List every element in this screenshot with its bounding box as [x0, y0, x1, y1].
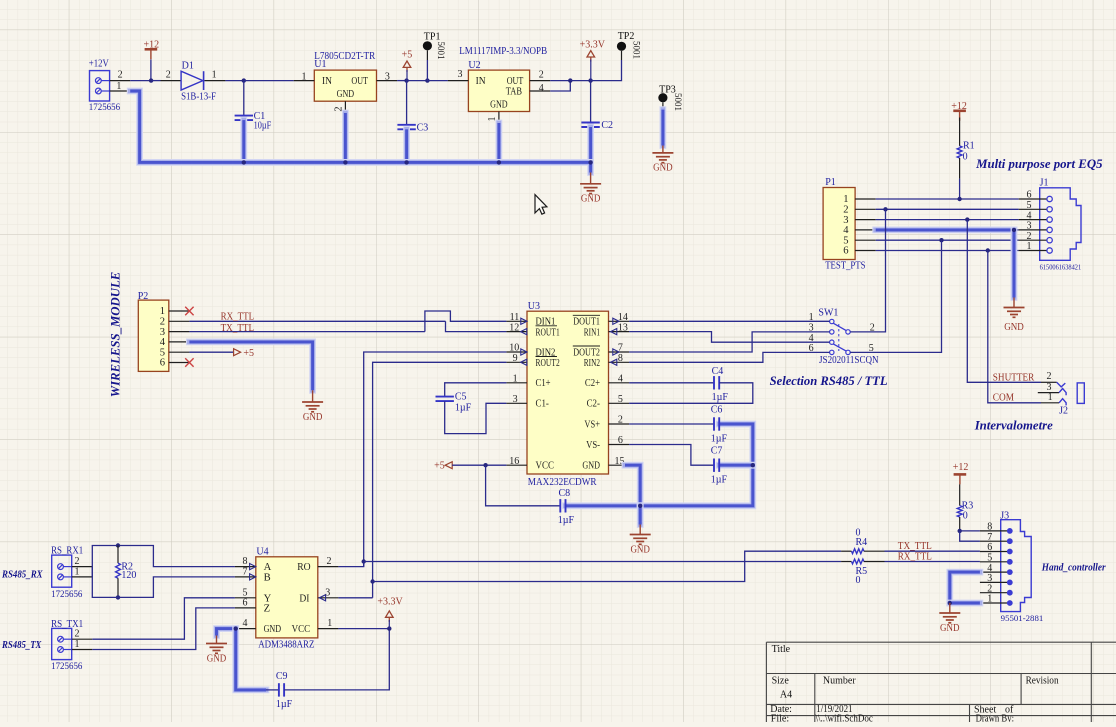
junction GND riser on pin4 row: [1012, 228, 1016, 232]
svg-text:Size: Size: [772, 675, 790, 686]
regulator U2 body: [468, 70, 529, 111]
wire to C9 left: [266, 689, 279, 691]
wire RS_TX1 pin1 to U4 Z: [92, 608, 235, 650]
wire U4 RO riser: [338, 562, 363, 567]
pin 7 of J3: [980, 532, 1013, 544]
pin 1 of J3: [980, 594, 1013, 606]
svg-text:Hand_controller: Hand_controller: [1041, 563, 1106, 574]
wire +12 to R3: [959, 484, 961, 505]
wire U1 GND to bus (selected): [342, 113, 349, 162]
junction U2 GND on gnd bus overdraw: [497, 160, 501, 164]
svg-text:C2+: C2+: [585, 378, 600, 389]
pin 6 of P2: [160, 358, 190, 369]
svg-text:Intervalometre: Intervalometre: [974, 417, 1053, 432]
junction U3 gnd riser: [638, 504, 642, 508]
pin 3 of U2: [448, 69, 469, 81]
svg-text:GND: GND: [1004, 322, 1024, 333]
wire U4 pin4 to gnd (selected): [217, 629, 235, 636]
svg-text:3: 3: [513, 394, 518, 405]
pin 3 of J2: [1038, 382, 1059, 393]
wire GND riser (selected): [1011, 230, 1018, 298]
power symbol +3.3V (top): [580, 40, 606, 62]
capacitor C2: [581, 123, 599, 128]
resistor R5: [841, 559, 884, 564]
junction R5 branch: [362, 559, 366, 563]
svg-text:C7: C7: [711, 446, 723, 457]
svg-text:DOUT2: DOUT2: [573, 347, 600, 358]
junction COM riser on pin6 row: [986, 248, 990, 252]
ground symbol below P1/J1: [1004, 308, 1025, 333]
pin 1 of P1: [843, 194, 875, 205]
svg-text:12: 12: [509, 322, 519, 333]
svg-text:TEST_PTS: TEST_PTS: [825, 261, 865, 272]
wire VS+ to C6: [629, 423, 714, 425]
svg-text:5: 5: [618, 394, 623, 405]
svg-text:C5: C5: [455, 391, 467, 402]
pin 4 of P2: [160, 337, 190, 348]
wire J3 gnd red stem: [949, 603, 951, 613]
svg-text:C2: C2: [601, 120, 613, 131]
svg-text:0: 0: [963, 152, 968, 163]
wire DOUT2 to SW1 pin3: [629, 332, 830, 352]
svg-text:SHUTTER: SHUTTER: [993, 372, 1035, 383]
svg-text:2: 2: [539, 70, 544, 81]
capacitor C8: [560, 499, 565, 512]
svg-text:COM: COM: [993, 393, 1014, 404]
svg-text:6: 6: [160, 358, 165, 369]
capacitor C5: [436, 397, 454, 402]
wire +12V pin2 to node: [130, 80, 151, 82]
pin 2 of J1: [1019, 231, 1053, 243]
wire R2 bottom stub: [117, 578, 119, 597]
wire OUT node to +3.3V node: [570, 80, 590, 82]
svg-text:Number: Number: [823, 675, 856, 686]
power symbol +5 (top): [402, 50, 413, 72]
wire node to TP2 corner: [591, 60, 622, 81]
pin 6 of P1: [843, 246, 875, 257]
pin 4 of J3: [980, 563, 1013, 575]
junction +5/C3 node: [404, 78, 408, 82]
svg-text:U4: U4: [256, 547, 268, 558]
wire P2 gnd red stem: [312, 390, 314, 402]
wire R4 to J3 pin6 (TX_TTL): [885, 550, 980, 552]
pin 2 of P1: [843, 205, 875, 216]
junction C2 on gnd bus overdraw: [588, 160, 592, 164]
svg-text:+3.3V: +3.3V: [580, 40, 606, 51]
pin 1 of P2: [160, 306, 190, 317]
junction +3.3V node: [588, 78, 592, 82]
wire ROUT2 riser to U4 DI: [373, 362, 507, 598]
wire C9 to VCC node: [284, 629, 389, 690]
pin 2 of U2: [530, 70, 551, 81]
IC U3 body: [527, 311, 609, 474]
title block grid: [766, 642, 1116, 722]
svg-text:3: 3: [385, 72, 390, 83]
pin 2 of U4: [318, 556, 339, 567]
svg-text:0: 0: [963, 511, 968, 522]
pin 4 of U4: [235, 618, 256, 629]
wire +12 to R1: [959, 118, 961, 146]
wire RO branch to R5: [364, 561, 841, 563]
power symbol +3.3V (U4): [377, 597, 403, 622]
capacitor C9: [279, 683, 284, 696]
pin 6 of U4: [235, 598, 256, 609]
connector RS_RX1 body: [52, 555, 72, 587]
svg-text:+12V: +12V: [89, 58, 110, 69]
wire U1 OUT to +5 node: [397, 80, 407, 82]
wire P1 pin4 to J1 pin3 (selected): [876, 226, 1014, 233]
wire B-net loop bottom: [92, 567, 235, 598]
capacitor C7: [714, 459, 719, 472]
wire TP1 to node: [426, 60, 428, 81]
svg-text:6: 6: [843, 246, 848, 257]
wire riser down to gnd symbol (selected): [637, 506, 644, 525]
svg-text:1: 1: [327, 618, 332, 629]
svg-text:120: 120: [121, 570, 136, 581]
svg-text:C1+: C1+: [536, 378, 551, 389]
wire C2+ to C4: [629, 382, 714, 384]
wire crossover hop TX to DIN1: [425, 311, 507, 332]
wire C9 riser (selected): [236, 629, 266, 690]
svg-text:RIN2: RIN2: [584, 358, 600, 369]
svg-text:C9: C9: [276, 671, 288, 682]
pin 5 of U4: [235, 587, 256, 598]
svg-text:S1B-13-F: S1B-13-F: [181, 91, 216, 102]
svg-text:VS-: VS-: [586, 440, 600, 451]
pin 2 of J2: [1041, 371, 1057, 382]
wire RX_TTL from P2 pin2: [189, 320, 445, 322]
svg-text:VS+: VS+: [584, 419, 600, 430]
wire C1+ to C5: [445, 383, 507, 397]
junction U1 GND on gnd bus overdraw: [343, 160, 347, 164]
switch SW1 JS202011SCQN: [830, 319, 851, 354]
wire RIN1 to SW1 pin4: [629, 332, 830, 343]
pin 2 of RS_RX1: [72, 556, 93, 567]
connector P1 TEST_PTS body: [823, 188, 855, 260]
pin 3 of U4: [318, 587, 339, 601]
wire SHUTTER from P1 pin3: [967, 220, 1041, 383]
pin 11 of U3: [506, 312, 527, 324]
wire GND riser red stem: [1013, 298, 1015, 308]
connector J1 body: [1040, 188, 1081, 260]
pin 6 of J1: [1019, 190, 1053, 202]
svg-text:IN: IN: [322, 76, 332, 87]
wire +3.3V to node: [388, 620, 390, 629]
wire DI branch to R4: [373, 551, 841, 581]
test point TP3 5001: [658, 93, 667, 110]
svg-text:1µF: 1µF: [712, 392, 729, 403]
pin 7 of U3: [609, 343, 630, 355]
svg-text:VCC: VCC: [536, 461, 555, 472]
svg-text:+5: +5: [402, 50, 413, 61]
wire +12 power to node: [150, 60, 152, 81]
wire VCC node down to C8: [486, 465, 561, 506]
pin 1 GND of U2: [487, 112, 499, 124]
svg-text:J2: J2: [1059, 406, 1068, 417]
wire node to TP1 node: [407, 80, 428, 82]
svg-text:5001: 5001: [673, 93, 683, 111]
wire U3 gnd red stem: [639, 525, 641, 535]
junction R2 top: [116, 543, 120, 547]
svg-text:U3: U3: [528, 301, 540, 312]
svg-text:MAX232ECDWR: MAX232ECDWR: [528, 477, 597, 488]
svg-text:Title: Title: [772, 644, 791, 655]
svg-text:TX_TTL: TX_TTL: [221, 323, 255, 334]
svg-text:C8: C8: [559, 488, 571, 499]
svg-text:1µF: 1µF: [558, 515, 575, 526]
pin 1 of J1: [1019, 241, 1053, 253]
svg-text:VCC: VCC: [292, 624, 311, 635]
wire U4 DI riser: [338, 597, 372, 599]
pin 1 of U1: [294, 72, 315, 83]
wire C2 top: [590, 81, 592, 123]
pin 3 of U3: [506, 394, 527, 405]
pin 7 of U4: [235, 567, 256, 581]
pin 2 of J3: [980, 583, 1013, 595]
wire D1 cathode to C1 node: [225, 80, 243, 82]
svg-text:6: 6: [618, 435, 623, 446]
svg-text:R3: R3: [962, 500, 974, 511]
no-ERC mark on P2 pin6: [185, 358, 193, 366]
pin 1 of U3: [506, 374, 527, 385]
wire DOUT1 to SW1 pin1: [629, 320, 830, 322]
svg-text:R4: R4: [856, 537, 868, 548]
wire RS_TX1 pin2 to U4 Y: [92, 598, 235, 639]
wire P1 pin3 to J1 pin4: [876, 219, 1019, 221]
junction SW1-5 riser on pin5 row: [939, 238, 943, 242]
pin 4 of J1: [1019, 210, 1053, 222]
svg-text:ADM3488ARZ: ADM3488ARZ: [258, 639, 314, 650]
wire R5 to J3 pin5 (RX_TTL): [885, 561, 980, 563]
svg-text:2: 2: [118, 70, 123, 81]
connector J3 body: [1001, 520, 1031, 612]
pin 5 of P1: [843, 235, 875, 246]
wire P2 pin5 to +5: [189, 351, 233, 353]
svg-text:1µF: 1µF: [455, 403, 472, 414]
wire P1 pin6 to J1 pin1: [876, 250, 1019, 252]
svg-text:P1: P1: [825, 177, 836, 188]
wire bus end red stem: [590, 173, 592, 184]
svg-text:1: 1: [1027, 241, 1032, 252]
svg-text:RIN1: RIN1: [584, 327, 600, 338]
wire +5 to VCC: [452, 464, 506, 466]
wire P2 pin4 to gnd (selected): [189, 342, 312, 390]
wire SW1 pin5 to P1 pin5 row: [850, 240, 941, 352]
svg-text:13: 13: [618, 322, 628, 333]
power symbol +12 (top left): [144, 40, 160, 60]
svg-text:GND: GND: [337, 89, 355, 100]
svg-text:DI: DI: [299, 593, 310, 604]
svg-text:Drawn By:: Drawn By:: [976, 714, 1014, 722]
pin 12 of U3: [506, 322, 527, 334]
wire TX_TTL from P2 pin3: [189, 331, 425, 333]
wire TP1 node to U2 IN: [427, 80, 448, 82]
svg-text:GND: GND: [207, 653, 227, 664]
svg-text:1: 1: [987, 594, 992, 605]
pin 8 of J3: [980, 522, 1013, 534]
wire P1 pin5 to J1 pin2: [876, 239, 1019, 241]
ground symbol below U3: [630, 535, 651, 556]
power symbol +5 (P2): [234, 348, 254, 359]
wire node to J3 pin7: [960, 531, 980, 541]
wire J3 pin1 gnd loop (selected): [950, 600, 980, 607]
svg-text:RO: RO: [297, 562, 311, 573]
wire C8 to gnd riser (selected): [566, 502, 641, 509]
svg-text:Revision: Revision: [1026, 675, 1059, 686]
resistor R4: [841, 549, 884, 554]
svg-text:1µF: 1µF: [711, 433, 728, 444]
junction U2 OUT node: [568, 78, 572, 82]
svg-text:P2: P2: [138, 291, 149, 302]
svg-text:1: 1: [75, 639, 80, 650]
svg-text:1: 1: [1048, 392, 1053, 403]
wire TP3 to gnd (selected): [660, 110, 667, 146]
wire COM from P1 pin6: [988, 251, 1041, 403]
svg-text:4: 4: [618, 374, 623, 385]
svg-text:1725656: 1725656: [51, 661, 83, 671]
svg-text:Z: Z: [264, 604, 270, 615]
power symbol +5 (U3 VCC): [434, 461, 452, 472]
junction C9 riser on pin4 row: [234, 626, 238, 630]
svg-text:+12: +12: [144, 40, 160, 51]
pin 9 of U3: [506, 353, 527, 365]
svg-text:R1: R1: [963, 141, 975, 152]
pin 5 of J1: [1019, 200, 1053, 212]
wire +3.3V symbol to node: [590, 60, 592, 81]
svg-text:RX_TTL: RX_TTL: [898, 551, 932, 562]
wire C7 to riser (selected): [719, 462, 753, 469]
pin 3 of P1: [843, 215, 875, 226]
svg-text:3: 3: [458, 69, 463, 80]
svg-text:GND: GND: [582, 461, 600, 472]
svg-text:+12: +12: [953, 462, 969, 473]
wire C4 loop to C2-: [629, 383, 753, 404]
test point TP2 5001: [617, 42, 626, 60]
junction U2 GND on bus: [497, 160, 501, 164]
pin 1 of J2: [1041, 392, 1059, 403]
pin 8 of U3: [609, 353, 630, 365]
resistor R3: [957, 506, 962, 517]
pin 6 of U3: [609, 435, 630, 446]
wire R1 to P1 pin1 row: [959, 158, 961, 179]
wire C3 bottom to bus (selected): [403, 129, 410, 162]
wire +5 symbol to node: [406, 70, 408, 81]
pin 2 GND of U1: [334, 101, 346, 113]
svg-text:1: 1: [513, 374, 518, 385]
svg-text:LM1117IMP-3.3/NOPB: LM1117IMP-3.3/NOPB: [459, 46, 547, 57]
svg-text:IN: IN: [476, 76, 486, 87]
pin 4 TAB of U2: [530, 83, 551, 94]
svg-text:1: 1: [75, 567, 80, 578]
junction C3 on gnd bus overdraw: [404, 160, 408, 164]
capacitor C4: [714, 376, 719, 389]
svg-text:GND: GND: [940, 623, 960, 634]
svg-text:4: 4: [243, 618, 248, 629]
junction GND riser on P1 pin4 row overdraw: [1012, 228, 1016, 232]
svg-text:6150061638421: 6150061638421: [1040, 263, 1082, 271]
connector RS_TX1 body: [52, 628, 72, 659]
svg-text:2: 2: [1047, 371, 1052, 382]
junction C1 node: [242, 78, 246, 82]
pin 1 of RS_TX1: [72, 639, 93, 650]
junction C9 riser overdraw: [234, 626, 238, 630]
ground symbol below P2: [302, 402, 323, 423]
svg-text:+12: +12: [951, 101, 967, 112]
svg-text:3: 3: [325, 587, 330, 598]
pin 2 of U3: [609, 415, 630, 426]
wire U2 OUT to +3.3V node: [550, 80, 570, 82]
junction SW1-2 riser on pin2 row: [883, 207, 887, 211]
junction +3.3V node (U4): [387, 626, 391, 630]
junction VCC node: [483, 463, 487, 467]
ground symbol below TP3: [652, 153, 673, 174]
wire C3 top: [406, 81, 408, 125]
svg-text:5001: 5001: [436, 42, 446, 60]
svg-text:C3: C3: [417, 122, 429, 133]
svg-text:1: 1: [302, 72, 307, 83]
connector J2 jack contacts: [1057, 382, 1085, 405]
wire C5 bottom loop to C1-: [445, 401, 507, 434]
power symbol +12 (right): [951, 101, 967, 121]
pin 2 of RS_TX1: [72, 629, 93, 640]
svg-text:5001: 5001: [632, 41, 642, 59]
wire VS- to C7: [629, 445, 714, 466]
junction +12 node at D1 anode: [149, 78, 153, 82]
junction C7 on riser: [751, 463, 755, 467]
junction U1 GND on bus: [343, 160, 347, 164]
pin 13 of U3: [609, 322, 630, 334]
svg-text:File:: File:: [771, 714, 789, 722]
pin 1 of RS_RX1: [72, 567, 93, 578]
junction TP1 node: [425, 78, 429, 82]
svg-text:2: 2: [75, 629, 80, 640]
svg-text:B: B: [264, 573, 271, 584]
mouse cursor: [535, 195, 547, 215]
svg-text:10µF: 10µF: [254, 120, 272, 131]
wire crossover RX to ROUT1: [446, 321, 507, 331]
svg-text:GND: GND: [264, 624, 282, 635]
wire A-net loop top: [92, 546, 235, 578]
wire gnd net to VS corner (selected): [640, 424, 753, 506]
no-ERC mark on P2 pin1: [185, 307, 193, 315]
svg-text:RS485_TX: RS485_TX: [1, 640, 42, 651]
IC U4 body: [256, 557, 318, 638]
svg-text:GND: GND: [653, 163, 673, 174]
svg-text:1: 1: [116, 81, 121, 92]
svg-text:ROUT2: ROUT2: [536, 358, 560, 369]
svg-text:ROUT1: ROUT1: [536, 327, 560, 338]
wire U3 pin15 to riser (selected): [625, 465, 640, 506]
svg-text:2: 2: [618, 415, 623, 426]
svg-text:+5: +5: [243, 348, 254, 359]
wire C1 node to U1 IN: [244, 80, 294, 82]
wire J3 pin4 to gnd loop (selected): [950, 572, 980, 603]
svg-text:Selection RS485 / TTL: Selection RS485 / TTL: [770, 373, 888, 388]
svg-text:RS485_RX: RS485_RX: [1, 570, 43, 581]
svg-text:C6: C6: [711, 404, 723, 415]
pin 15 of U3: [609, 456, 626, 467]
wire P1 pin2 to J1 pin5: [876, 208, 1019, 210]
svg-text:1µF: 1µF: [276, 699, 293, 710]
capacitor C3: [397, 125, 415, 130]
svg-text:RS_RX1: RS_RX1: [51, 546, 83, 557]
svg-text:TAB: TAB: [506, 86, 522, 97]
resistor R1: [957, 146, 962, 158]
svg-text:4: 4: [539, 83, 544, 94]
wire node to D1 anode: [151, 80, 160, 82]
wire C1 bottom to gnd bus (selected): [240, 120, 247, 162]
pin 6 of J3: [980, 542, 1013, 554]
